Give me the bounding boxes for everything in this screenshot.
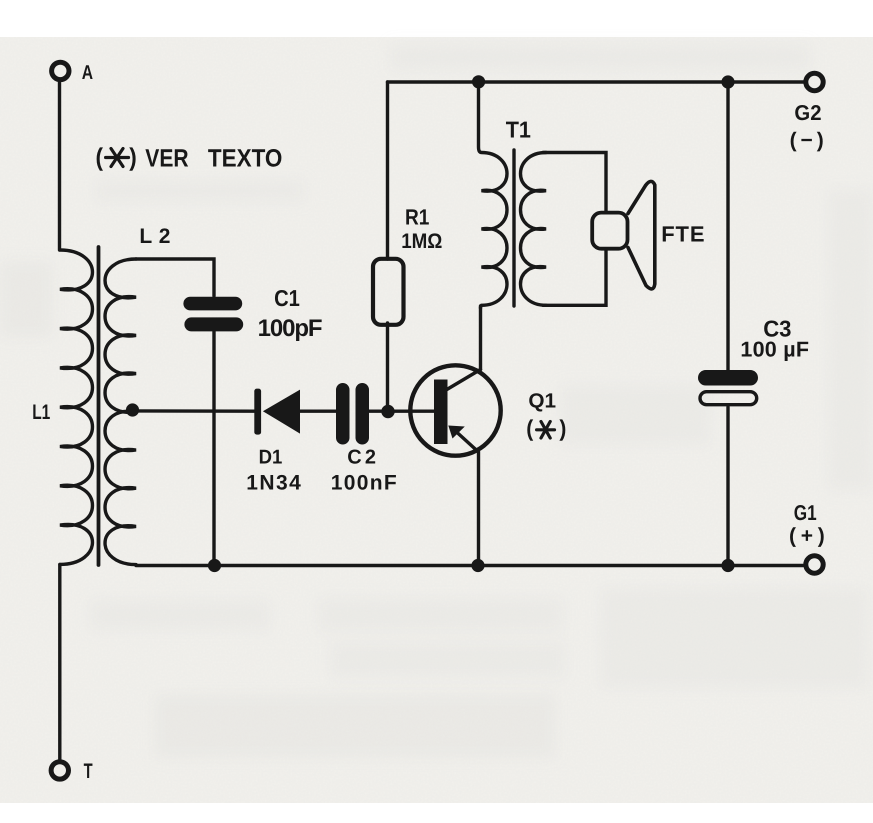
wire T1 secondary bottom to FTE <box>543 249 606 305</box>
transistor Q1 <box>410 365 500 455</box>
wire D1 to C2 <box>300 410 337 413</box>
core T1 <box>512 150 515 306</box>
diode D1 <box>254 389 300 435</box>
wire A to L1 top <box>58 82 61 250</box>
resistor R1 <box>386 82 389 259</box>
emitter arrow <box>448 426 465 439</box>
svg-text:T: T <box>84 760 93 783</box>
svg-text:1N34: 1N34 <box>246 472 301 495</box>
transformer T1 secondary <box>521 153 547 306</box>
wire C3 top <box>726 82 729 370</box>
node C3 bottom <box>721 559 734 572</box>
collector line <box>446 370 481 391</box>
svg-text:Q1: Q1 <box>528 390 556 413</box>
bottom rail <box>136 564 805 567</box>
svg-text:100pF: 100pF <box>258 315 323 342</box>
node top T1 <box>472 75 485 88</box>
note (*) for Q1 <box>526 415 566 441</box>
svg-text:L1: L1 <box>32 401 50 424</box>
node emitter bottom <box>471 559 484 572</box>
svg-text:VER: VER <box>145 145 188 173</box>
svg-text:D1: D1 <box>259 447 283 469</box>
svg-text:): ) <box>129 143 137 171</box>
wire L2 top to C1 <box>136 259 214 296</box>
svg-text:100nF: 100nF <box>331 472 397 495</box>
wire C3 bottom <box>726 407 729 566</box>
svg-text:A: A <box>82 62 93 84</box>
wire T1 secondary top to FTE <box>543 153 606 213</box>
wire C1 bottom to ground rail <box>212 331 215 566</box>
svg-text:R1: R1 <box>405 205 429 230</box>
svg-text:T1: T1 <box>506 117 531 143</box>
node C1 bottom <box>208 559 221 572</box>
svg-text:G1: G1 <box>794 501 817 525</box>
terminal G1 <box>806 556 823 573</box>
capacitor C2 <box>336 383 369 445</box>
terminal A <box>52 62 69 79</box>
wire L1 bottom to T <box>58 564 61 759</box>
coil L1 <box>60 250 92 564</box>
node L2 tap <box>126 403 139 416</box>
svg-text:TEXTO: TEXTO <box>208 145 283 173</box>
speaker FTE <box>592 213 627 249</box>
svg-text:(: ( <box>96 143 104 171</box>
emitter line <box>456 432 479 566</box>
terminal G2 <box>806 73 823 90</box>
svg-text:(: ( <box>526 415 533 441</box>
transformer T1 primary <box>479 82 508 308</box>
svg-text:G2: G2 <box>794 101 821 125</box>
capacitor C1 <box>183 297 243 332</box>
terminal T <box>51 762 68 779</box>
wire tap to D1 <box>133 409 256 413</box>
top rail <box>388 80 805 83</box>
svg-text:100 µF: 100 µF <box>740 338 809 362</box>
node base junction <box>381 405 394 418</box>
wire T1 primary to collector <box>479 306 482 370</box>
svg-text:(+): (+) <box>789 525 825 548</box>
capacitor C3 <box>698 370 758 386</box>
svg-text:FTE: FTE <box>661 222 704 247</box>
svg-text:(−): (−) <box>790 129 824 152</box>
core L1/L2 <box>97 247 101 565</box>
svg-text:C1: C1 <box>274 285 300 311</box>
svg-text:): ) <box>559 415 566 441</box>
note (*) VER TEXTO <box>96 143 283 172</box>
coil L2 <box>105 259 136 565</box>
wire C2 to base node <box>369 410 434 413</box>
svg-text:C2: C2 <box>347 447 376 469</box>
svg-text:1MΩ: 1MΩ <box>401 230 442 253</box>
node top C3 <box>721 75 734 88</box>
